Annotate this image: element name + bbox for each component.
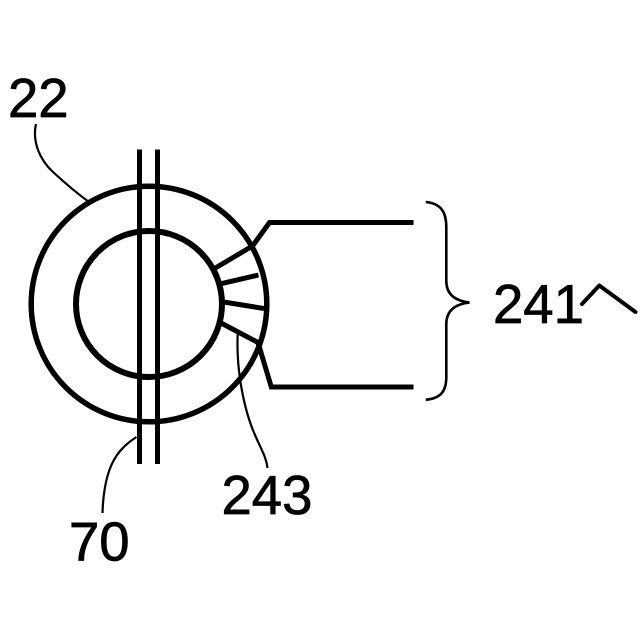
svg-text:241: 241	[493, 274, 584, 335]
svg-text:70: 70	[69, 512, 130, 573]
svg-text:22: 22	[8, 68, 69, 129]
svg-text:243: 243	[222, 465, 313, 526]
